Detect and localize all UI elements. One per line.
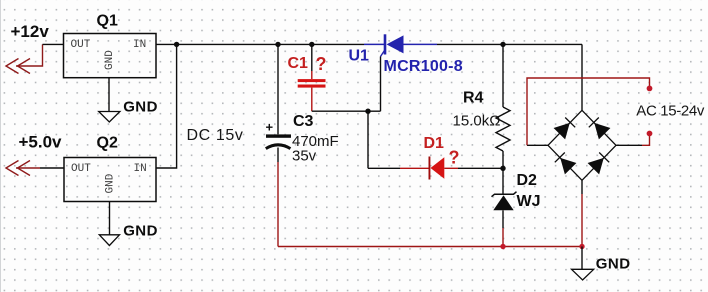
wire C1 top lead red	[311, 71, 313, 79]
svg-text:AC 15-24v: AC 15-24v	[636, 103, 705, 120]
wire bridge bottom black	[581, 180, 583, 194]
svg-text:GND: GND	[123, 223, 158, 240]
svg-text:?: ?	[316, 54, 327, 74]
bridge diode bottom-left	[555, 153, 575, 174]
svg-text:D1: D1	[424, 135, 445, 152]
terminal AC 1	[647, 86, 653, 92]
zener diode D2	[492, 168, 541, 228]
voltage regulator Q2	[64, 135, 156, 202]
svg-text:GND: GND	[104, 50, 116, 70]
SCR U1	[349, 34, 463, 75]
svg-text:Q1: Q1	[97, 12, 118, 29]
bridge diode top-right	[589, 118, 609, 139]
svg-text:GND: GND	[105, 173, 117, 193]
svg-text:IN: IN	[134, 163, 147, 175]
junction dot R4 bottom	[500, 166, 505, 171]
svg-text:+12v: +12v	[11, 22, 50, 41]
junction dot R4	[500, 42, 505, 47]
wire C3 bottom lead black	[277, 148, 279, 163]
junction dot C1	[309, 42, 314, 47]
left screenshot edge	[0, 0, 2, 292]
capacitor C3	[266, 113, 339, 165]
wire AC stub red	[642, 136, 650, 145]
bridge diode top-left	[555, 118, 575, 139]
svg-text:C1: C1	[288, 55, 309, 72]
ground symbol bottom right	[572, 269, 594, 280]
wire bridge bottom red	[581, 194, 583, 247]
junction dot rail D2	[500, 244, 505, 249]
wire Q1 GND pin	[108, 78, 110, 112]
svg-text:?: ?	[449, 148, 460, 168]
wire C1 bottom lead red	[311, 88, 313, 112]
junction dot rail bridge	[579, 244, 584, 249]
wire C1 top lead black	[311, 44, 313, 71]
wire U1 gate down	[380, 57, 382, 112]
wire Q1 OUT	[43, 43, 64, 45]
capacitor C1	[288, 54, 327, 88]
wire C1 to gate node	[312, 110, 381, 112]
svg-text:+: +	[266, 120, 274, 135]
terminal AC 2	[647, 131, 653, 137]
input flag arrow +5.0v	[6, 161, 40, 176]
wire C3 top lead	[277, 44, 279, 134]
svg-text:D2: D2	[517, 172, 538, 189]
svg-text:GND: GND	[596, 256, 631, 273]
wire top rail right segment	[437, 43, 582, 45]
wire D2 to rail red	[502, 228, 504, 247]
junction dot Q2 feed	[174, 42, 179, 47]
svg-text:OUT: OUT	[71, 163, 91, 175]
svg-text:15.0kΩ: 15.0kΩ	[453, 112, 501, 129]
voltage regulator Q1	[64, 12, 157, 77]
junction dot C3	[275, 42, 280, 47]
resistor R4	[453, 44, 511, 168]
wire Q2 GND pin	[109, 202, 111, 235]
svg-text:Q2: Q2	[97, 135, 118, 152]
svg-text:MCR100-8: MCR100-8	[384, 58, 463, 75]
svg-text:35v: 35v	[292, 148, 317, 165]
wire bridge left to AC	[527, 144, 548, 146]
svg-text:DC 15v: DC 15v	[187, 127, 244, 144]
wire AC red up and over	[527, 78, 650, 145]
wire Q2 IN up to top rail	[156, 44, 177, 168]
wire top rail left segment	[156, 43, 364, 45]
bridge diode bottom-right	[589, 153, 609, 174]
wire C3 bottom lead red	[277, 162, 279, 247]
svg-text:WJ: WJ	[517, 193, 541, 210]
svg-text:+5.0v: +5.0v	[19, 133, 63, 152]
svg-text:U1: U1	[349, 48, 370, 65]
input flag arrow +12v	[6, 44, 43, 73]
wire D1 to R4 junction black	[458, 167, 503, 169]
svg-text:GND: GND	[123, 99, 158, 116]
wire Q2 OUT	[40, 167, 64, 169]
diode D1	[424, 135, 460, 180]
wire D1 line left black	[368, 167, 400, 169]
svg-text:C3: C3	[293, 113, 314, 130]
wire bridge right to AC	[616, 144, 642, 146]
bridge rectifier frame	[548, 110, 616, 180]
wire D1 lead right red	[444, 167, 458, 169]
junction dot gate node	[365, 109, 370, 114]
wire bottom rail red	[278, 246, 582, 248]
svg-text:OUT: OUT	[71, 39, 91, 51]
svg-text:IN: IN	[133, 39, 146, 51]
wire GND stub	[581, 247, 583, 270]
wire top rail corner down to bridge	[581, 44, 583, 110]
wire D1 lead left red	[400, 167, 429, 169]
ground symbol under Q1	[99, 112, 120, 123]
wire gate node down to D1 line	[367, 111, 369, 168]
ground symbol under Q2	[99, 235, 119, 246]
svg-text:R4: R4	[463, 90, 484, 107]
